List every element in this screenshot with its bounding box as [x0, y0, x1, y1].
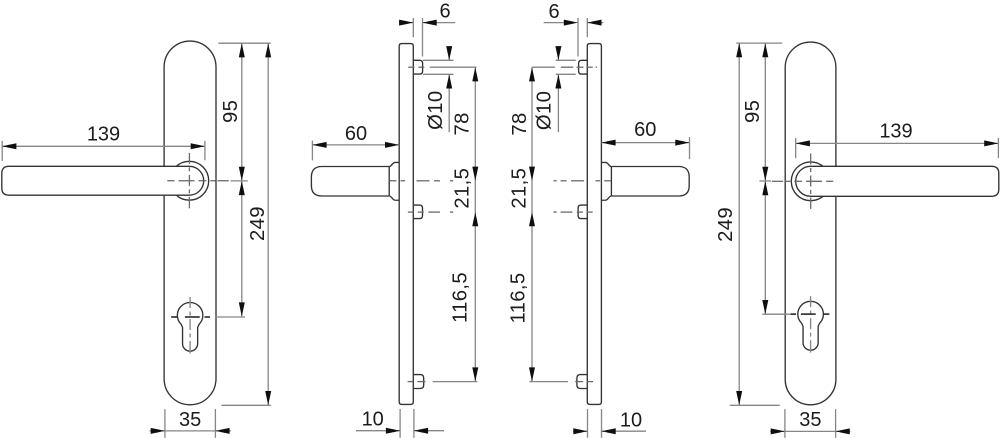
svg-text:10: 10: [362, 409, 384, 431]
svg-text:Ø10: Ø10: [425, 91, 447, 130]
svg-text:60: 60: [634, 119, 656, 141]
svg-text:35: 35: [179, 409, 201, 431]
svg-text:6: 6: [439, 0, 450, 22]
svg-text:249: 249: [715, 207, 737, 242]
svg-text:21,5: 21,5: [452, 168, 474, 209]
svg-text:78: 78: [509, 112, 531, 135]
svg-text:95: 95: [220, 100, 242, 123]
svg-text:10: 10: [620, 410, 642, 432]
svg-text:139: 139: [879, 121, 912, 143]
svg-text:116,5: 116,5: [507, 273, 529, 324]
svg-text:35: 35: [799, 409, 821, 431]
svg-text:6: 6: [548, 1, 559, 23]
svg-text:60: 60: [345, 123, 367, 145]
svg-text:95: 95: [742, 100, 764, 123]
svg-text:21,5: 21,5: [509, 168, 531, 209]
svg-text:139: 139: [87, 123, 120, 145]
svg-text:249: 249: [247, 206, 269, 241]
svg-text:78: 78: [452, 112, 474, 135]
svg-text:116,5: 116,5: [450, 272, 472, 323]
svg-text:Ø10: Ø10: [533, 91, 555, 130]
